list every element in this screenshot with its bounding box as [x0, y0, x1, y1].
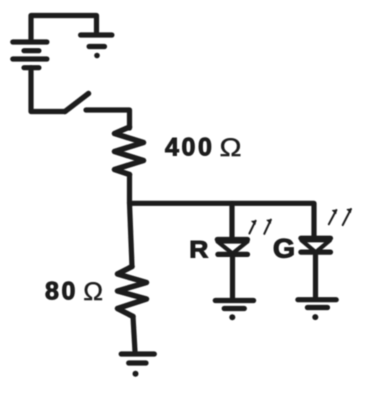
LED D1 light arrows	[249, 220, 271, 234]
ground G3	[215, 301, 253, 321]
wire battery bottom to switch	[31, 68, 65, 112]
svg-text:Ω: Ω	[83, 279, 103, 306]
wire R1 to node/bus	[127, 175, 132, 204]
wire R2 to ground G2	[133, 317, 135, 352]
wire switch contact to resistor R1	[86, 110, 130, 128]
wire battery top to ground G1	[31, 16, 97, 45]
wire D1 to ground G3	[230, 255, 235, 299]
bus wire node to LED branches	[130, 203, 315, 238]
ground G2	[121, 354, 154, 377]
wire node to resistor R2	[130, 203, 133, 267]
svg-text:R: R	[189, 236, 208, 263]
resistor R1 400ohm	[115, 127, 144, 175]
LED D2 (G)	[301, 238, 331, 252]
label 80 ohm	[45, 278, 103, 306]
battery B1	[13, 42, 47, 68]
LED D2 light arrows	[329, 209, 351, 225]
svg-text:Ω: Ω	[220, 133, 242, 161]
svg-text:400: 400	[165, 134, 215, 162]
LED D1 (R)	[217, 240, 247, 255]
wire branch to LED D1	[229, 203, 234, 239]
svg-text:80: 80	[45, 278, 78, 306]
ground G1	[81, 35, 112, 58]
resistor R2 80ohm	[118, 267, 147, 317]
wire D2 to ground G4	[313, 253, 318, 298]
switch SW1 blade	[65, 94, 89, 112]
ground G4	[298, 300, 336, 320]
svg-text:G: G	[273, 233, 295, 263]
label 400 ohm	[165, 133, 242, 161]
